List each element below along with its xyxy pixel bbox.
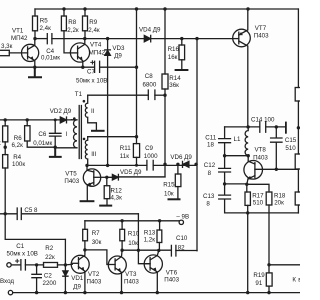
svg-text:С9: С9: [145, 145, 153, 152]
wire VT2 collector to VT3 base: [85, 250, 109, 265]
svg-text:VT6: VT6: [166, 270, 178, 277]
svg-text:С10: С10: [176, 235, 188, 242]
svg-text:510: 510: [253, 200, 264, 207]
capacitor C2: [32, 265, 41, 293]
svg-text:VT2: VT2: [88, 271, 100, 278]
ground below R15: [169, 198, 180, 200]
svg-text:К: К: [292, 276, 296, 283]
capacitor C7 polarity plus: [91, 61, 94, 64]
transistor VT6: [144, 255, 162, 273]
wire VD2 node y120: [0, 119, 72, 121]
svg-text:R2: R2: [45, 245, 53, 252]
diode VD3: [105, 50, 111, 56]
svg-text:VD5 Д9: VD5 Д9: [120, 169, 142, 176]
capacitor C1 polarity plus: [16, 259, 19, 262]
resistor R19: [268, 265, 270, 273]
svg-text:С14 100: С14 100: [251, 116, 275, 123]
capacitor C13: [219, 195, 231, 199]
wire x165 R14 to VD5 corner: [118, 89, 165, 177]
svg-text:С11: С11: [205, 134, 216, 141]
svg-text:– 9В: – 9В: [176, 214, 189, 221]
svg-text:R19: R19: [253, 272, 265, 279]
svg-text:Д9: Д9: [73, 284, 81, 291]
resistor R5: [34, 9, 36, 16]
ground below VT5: [81, 200, 94, 202]
capacitor C6: [50, 120, 62, 147]
ground winding II: [92, 130, 104, 132]
svg-text:8: 8: [208, 170, 212, 177]
svg-text:С7: С7: [87, 68, 95, 75]
resistor R9: [84, 9, 86, 16]
svg-text:8: 8: [206, 201, 210, 208]
svg-text:R4: R4: [13, 154, 21, 161]
diode VD2: [60, 117, 66, 123]
svg-text:10к: 10к: [128, 240, 138, 247]
capacitor C10: [171, 245, 176, 256]
svg-text:П403: П403: [164, 277, 179, 284]
wire winding II top to C8: [88, 94, 149, 96]
ground below C6: [50, 147, 61, 157]
svg-text:R12: R12: [111, 188, 123, 195]
svg-text:МП42: МП42: [11, 35, 28, 42]
resistor R7: [84, 221, 86, 230]
svg-text:510: 510: [285, 145, 296, 152]
wire winding III top to R11: [88, 136, 137, 138]
wire C5 chain left: [5, 214, 65, 240]
svg-text:Д9: Д9: [114, 52, 122, 59]
capacitor C12: [219, 168, 231, 172]
resistor (clipped) right edge upper: [295, 88, 302, 102]
resistor R17: [246, 184, 248, 192]
svg-text:R9: R9: [89, 19, 97, 26]
svg-text:П403: П403: [64, 178, 79, 185]
svg-text:в: в: [298, 276, 300, 283]
svg-text:Т1: Т1: [75, 91, 83, 98]
svg-text:L1: L1: [234, 136, 241, 143]
svg-text:R5: R5: [40, 18, 48, 25]
wire IF detector node y165.4: [87, 164, 196, 166]
svg-text:6800: 6800: [143, 81, 157, 88]
diode VD5: [112, 174, 118, 180]
svg-text:С5 8: С5 8: [24, 207, 38, 214]
wire x136.5 rail to C7 node: [136, 9, 138, 137]
capacitor C15: [271, 127, 282, 169]
capacitor C14: [260, 122, 266, 133]
transistor VT8: [244, 161, 263, 180]
svg-text:30к: 30к: [92, 239, 102, 246]
resistor R12: [106, 177, 108, 185]
svg-text:2,2к: 2,2к: [67, 27, 79, 34]
svg-text:R11: R11: [120, 145, 131, 152]
wire VD1 vertical: [64, 239, 66, 292]
capacitor C8: [148, 90, 155, 100]
transformer winding III: [85, 137, 87, 166]
resistor R2: [44, 263, 58, 268]
wire C8 to x165 node: [155, 94, 165, 96]
svg-text:0,01мк: 0,01мк: [33, 140, 52, 147]
svg-text:R14: R14: [169, 75, 181, 82]
transistor VT1: [22, 44, 39, 61]
svg-text:VD6 Д9: VD6 Д9: [170, 154, 192, 161]
capacitor C5: [0, 208, 138, 220]
svg-text:100к: 100к: [12, 161, 25, 168]
wire x138.4 down to VT6 base: [138, 214, 150, 264]
svg-text:36к: 36к: [169, 82, 179, 89]
svg-text:4,3к: 4,3к: [111, 195, 123, 202]
ground below R12: [100, 205, 111, 207]
svg-text:82: 82: [178, 244, 185, 251]
inductor L1: [245, 127, 248, 161]
capacitor C4: [47, 34, 52, 44]
resistor R4: [3, 155, 8, 168]
transformer winding I: [55, 120, 77, 148]
wire output node y264.8: [269, 264, 300, 266]
wire right edge vertical upper: [297, 9, 299, 213]
svg-text:R17: R17: [252, 193, 264, 200]
wire C11-C12 node to L1: [225, 155, 249, 157]
svg-text:П403: П403: [87, 279, 102, 286]
capacitor C11: [219, 139, 231, 143]
capacitor C1: [21, 260, 26, 270]
resistor R18: [266, 192, 272, 205]
svg-text:С2: С2: [44, 272, 52, 279]
resistor (clipped) right edge lower: [295, 192, 302, 205]
svg-text:VT1: VT1: [12, 28, 24, 35]
wire R18 down to R19 node: [268, 205, 270, 265]
diode VD4: [144, 35, 150, 41]
wire x197 vertical: [196, 39, 198, 251]
ground below VT1: [29, 67, 41, 77]
svg-text:П403: П403: [254, 33, 269, 40]
resistor R13: [159, 221, 161, 230]
capacitor C7: [95, 61, 100, 72]
svg-text:VT4: VT4: [90, 42, 102, 49]
svg-text:МП42: МП42: [89, 50, 106, 57]
wire main top horizontal node: [35, 38, 47, 40]
svg-text:С15: С15: [285, 137, 297, 144]
svg-text:VT5: VT5: [65, 171, 77, 178]
resistor R6a left chain upper: [4, 120, 6, 126]
svg-text:2200: 2200: [43, 280, 57, 287]
svg-text:R10: R10: [128, 231, 140, 238]
svg-text:1,2к: 1,2к: [144, 236, 156, 243]
svg-text:R6: R6: [14, 135, 22, 142]
svg-text:П403: П403: [124, 279, 139, 286]
transformer T1 core: [79, 106, 81, 159]
svg-text:III: III: [91, 151, 96, 158]
svg-text:1000: 1000: [144, 153, 158, 160]
terminal -9V: [179, 220, 183, 224]
svg-text:VD4 Д9: VD4 Д9: [139, 27, 161, 34]
svg-text:R8: R8: [68, 19, 76, 26]
svg-text:R16: R16: [168, 46, 180, 53]
svg-text:VT7: VT7: [255, 25, 267, 32]
svg-text:С13: С13: [203, 193, 215, 200]
transformer winding II: [85, 95, 96, 129]
svg-text:С6: С6: [38, 131, 46, 138]
svg-text:0,01мк: 0,01мк: [41, 54, 60, 61]
terminal input lower: [8, 290, 12, 294]
svg-text:Вход: Вход: [0, 278, 14, 285]
wire VD3 vertical x107.6: [107, 39, 109, 166]
svg-text:I: I: [66, 131, 68, 138]
terminal input upper: [7, 263, 11, 267]
wire C1 to R2: [25, 264, 43, 266]
svg-text:16к: 16к: [168, 54, 178, 61]
ground below R16: [176, 69, 188, 71]
svg-text:50мк х 10В: 50мк х 10В: [76, 77, 107, 84]
svg-text:20к: 20к: [274, 199, 284, 206]
svg-text:10к: 10к: [164, 190, 174, 197]
resistor R11: [133, 144, 139, 158]
svg-text:С8: С8: [145, 73, 153, 80]
resistor R6 second box: [26, 120, 28, 126]
wire R8 to VT4 base: [64, 31, 70, 53]
transistor VT4: [70, 43, 89, 62]
svg-text:VD3: VD3: [112, 45, 125, 52]
resistor R15: [177, 164, 179, 174]
resistor 3.3k input (clipped): [0, 50, 9, 55]
transistor VT2: [71, 255, 89, 273]
svg-text:91: 91: [255, 280, 262, 287]
resistor R8: [63, 9, 65, 16]
wire emitter node y184.3: [225, 184, 269, 192]
capacitor C9: [147, 160, 153, 170]
svg-text:18: 18: [207, 141, 214, 148]
diode VD6: [183, 161, 189, 167]
svg-text:П403: П403: [253, 154, 268, 161]
svg-text:R15: R15: [163, 182, 175, 189]
wire C11 chain x224.6: [225, 127, 299, 213]
wire C4 to VT7 base: [52, 38, 233, 40]
svg-text:VD2 Д9: VD2 Д9: [50, 108, 72, 115]
resistor (clipped) right edge middle: [295, 154, 302, 169]
wire top supply rail: [35, 8, 298, 10]
wire x165 rail down: [164, 9, 166, 74]
capacitor plate stub right: [285, 123, 287, 133]
diode VD1: [63, 271, 68, 276]
svg-text:С1: С1: [16, 243, 24, 250]
svg-text:3,3к: 3,3к: [1, 43, 13, 50]
svg-text:2,4к: 2,4к: [40, 25, 52, 32]
wire collector bus y250.3: [122, 249, 197, 251]
wire oscillator top y126.9: [225, 126, 286, 128]
resistor R14: [162, 74, 168, 89]
wire emitter bus y67: [0, 66, 137, 68]
resistor R16: [181, 39, 183, 45]
svg-text:50мк х 10В: 50мк х 10В: [7, 251, 38, 258]
svg-text:2,4к: 2,4к: [88, 27, 100, 34]
wire input: [11, 264, 21, 266]
svg-text:11к: 11к: [120, 153, 129, 160]
resistor R10: [121, 221, 123, 230]
svg-text:VD1: VD1: [71, 275, 84, 282]
svg-text:II: II: [91, 108, 95, 115]
svg-text:R7: R7: [92, 230, 100, 237]
wire -9V node y220.8: [85, 220, 179, 222]
svg-text:VT3: VT3: [125, 271, 137, 278]
wire R17 node down to bottom rail: [247, 213, 249, 293]
transistor VT5: [83, 169, 100, 186]
svg-text:22к: 22к: [45, 254, 55, 261]
svg-text:VT8: VT8: [255, 147, 267, 154]
wire VD5 node y177: [107, 176, 165, 178]
transistor VT3: [108, 256, 126, 274]
bottom rail: [13, 292, 300, 294]
transistor VT7: [233, 29, 251, 47]
wire R2 to VT2 base: [58, 263, 73, 266]
svg-text:С12: С12: [204, 162, 216, 169]
svg-text:6,2к: 6,2к: [12, 142, 24, 149]
